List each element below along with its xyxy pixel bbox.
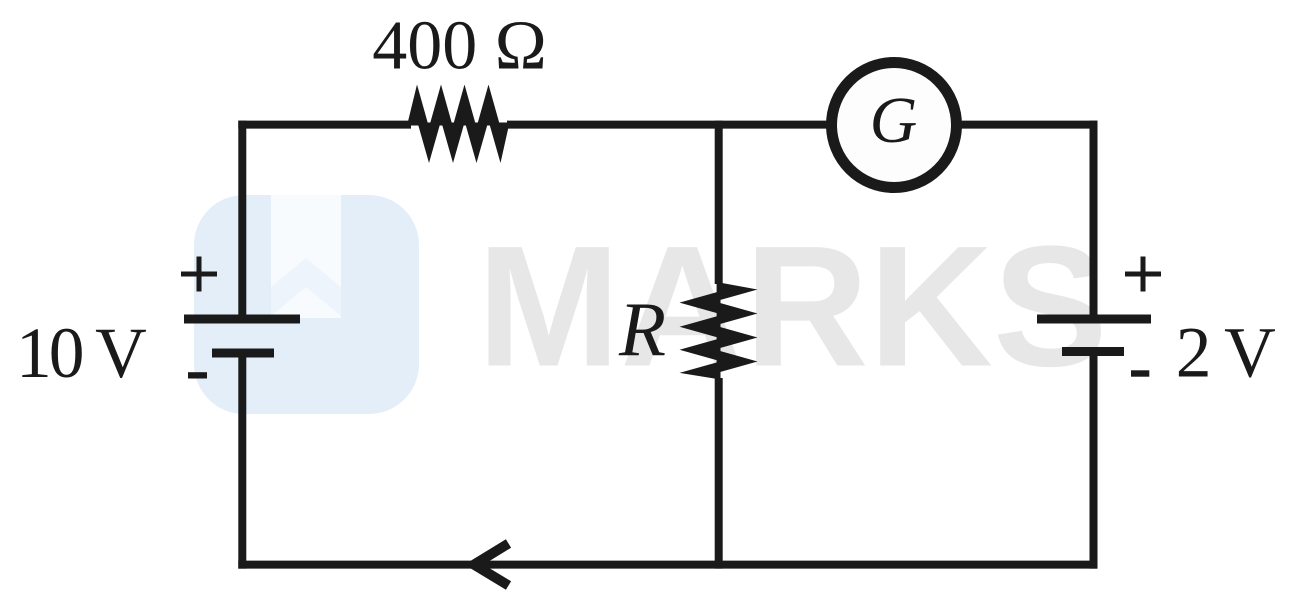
svg-text:10 V: 10 V: [16, 314, 146, 393]
battery B2 long plate: [1037, 315, 1151, 324]
current arrow: [474, 544, 509, 586]
wire middle vertical lower: [715, 378, 723, 569]
svg-text:G: G: [870, 84, 918, 157]
battery B2 short plate: [1062, 347, 1124, 356]
battery B1 short plate: [212, 349, 274, 358]
wire left vertical lower: [238, 353, 246, 569]
wire bottom: [238, 561, 1097, 569]
galvanometer G circle: [832, 63, 957, 188]
minus sign left: [188, 372, 207, 378]
wire top middle: [507, 121, 860, 129]
minus sign right: [1131, 370, 1149, 376]
svg-text:400 Ω: 400 Ω: [372, 7, 547, 84]
wire right vertical lower: [1090, 352, 1098, 569]
svg-text:R: R: [618, 286, 666, 372]
battery B1 long plate: [184, 315, 300, 324]
svg-text:MARKS: MARKS: [477, 211, 1108, 403]
plus sign right: [1125, 257, 1161, 292]
plus sign left: [181, 257, 217, 292]
wire top right of galvanometer: [930, 121, 1098, 129]
watermark logo chevron: [271, 258, 341, 316]
wire middle vertical upper: [715, 121, 723, 284]
svg-text:2 V: 2 V: [1176, 313, 1275, 392]
wire top-left horizontal: [238, 121, 411, 129]
watermark logo rounded square: [194, 195, 419, 414]
resistor R zigzag: [680, 282, 758, 380]
wire left vertical upper: [238, 121, 246, 316]
resistor R1 400 ohm zigzag: [407, 85, 510, 164]
watermark logo ribbon: [271, 195, 341, 318]
wire right vertical upper: [1090, 121, 1098, 316]
